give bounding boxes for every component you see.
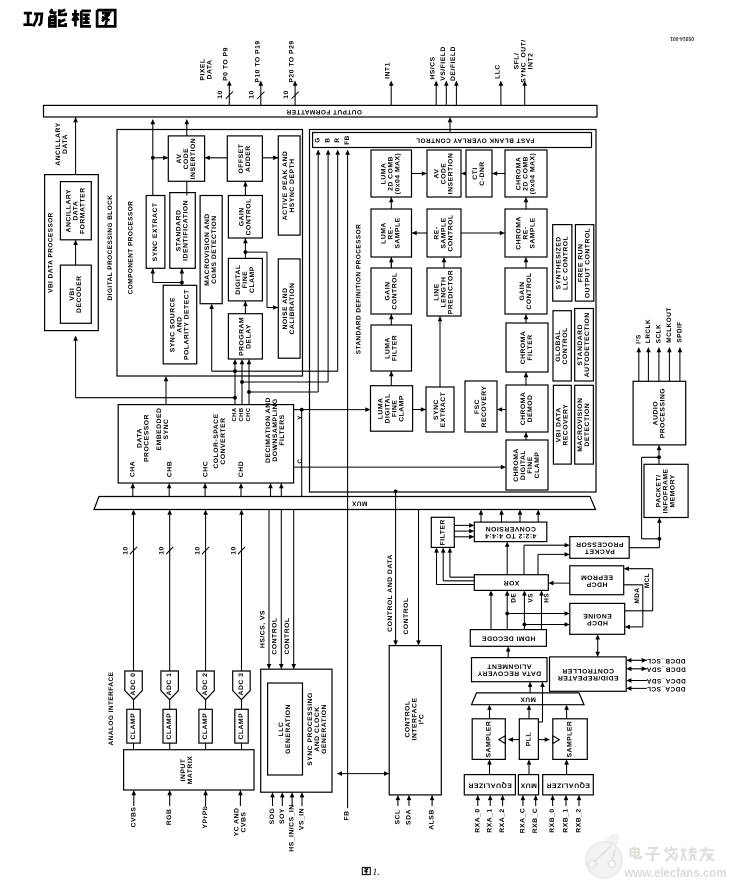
svg-text:RE-: RE- — [388, 226, 395, 239]
svg-text:STANDARD DEFINITION PROCESSOR: STANDARD DEFINITION PROCESSOR — [356, 224, 363, 354]
svg-text:GAIN: GAIN — [238, 207, 245, 226]
svg-text:LUMA: LUMA — [378, 398, 385, 420]
svg-text:YC AND: YC AND — [233, 808, 240, 837]
svg-text:RE-: RE- — [523, 226, 530, 239]
svg-text:SYNC PROCESSING: SYNC PROCESSING — [307, 692, 314, 766]
svg-text:CONTROL: CONTROL — [405, 700, 412, 737]
svg-text:SYNC: SYNC — [433, 399, 440, 420]
svg-text:ADC 2: ADC 2 — [202, 673, 209, 696]
svg-text:OUTPUT FORMATTER: OUTPUT FORMATTER — [286, 108, 362, 115]
svg-text:CONTROL: CONTROL — [526, 272, 533, 309]
svg-text:RECOVERY: RECOVERY — [562, 404, 569, 446]
svg-text:GAIN: GAIN — [519, 282, 526, 301]
svg-text:CONTROL: CONTROL — [448, 214, 455, 251]
svg-text:DE/FIELD: DE/FIELD — [450, 46, 457, 81]
svg-text:INFOFRAME: INFOFRAME — [663, 468, 670, 513]
svg-text:LLC: LLC — [494, 64, 501, 79]
svg-text:FINE: FINE — [242, 271, 249, 288]
svg-text:STANDARD: STANDARD — [176, 210, 183, 252]
svg-text:CVBS: CVBS — [240, 812, 247, 833]
svg-text:CODE: CODE — [183, 148, 190, 170]
svg-text:RE-: RE- — [434, 226, 441, 239]
svg-text:VBI DATA PROCESSOR: VBI DATA PROCESSOR — [47, 212, 54, 293]
svg-text:B: B — [325, 137, 332, 142]
svg-text:PREDICTOR: PREDICTOR — [448, 270, 455, 314]
svg-text:CODE: CODE — [441, 163, 448, 185]
svg-text:G: G — [315, 137, 322, 142]
svg-text:RXA_1: RXA_1 — [487, 808, 494, 832]
svg-text:NOISE AND: NOISE AND — [282, 287, 289, 329]
svg-text:FORMATTER: FORMATTER — [79, 187, 86, 234]
svg-text:10: 10 — [249, 90, 256, 99]
svg-text:CVBS: CVBS — [130, 807, 137, 828]
svg-text:POLARITY DETECT: POLARITY DETECT — [183, 289, 190, 360]
svg-text:CHD: CHD — [238, 461, 245, 477]
svg-text:CLAMP: CLAMP — [399, 395, 406, 422]
svg-text:SFL/: SFL/ — [514, 53, 521, 70]
svg-text:CLAMP: CLAMP — [130, 713, 137, 740]
svg-text:SCL: SCL — [394, 809, 401, 824]
svg-text:DELAY: DELAY — [245, 324, 252, 349]
svg-text:CHA: CHA — [232, 407, 238, 421]
svg-text:DATA: DATA — [206, 60, 213, 80]
svg-text:SCLK: SCLK — [655, 324, 662, 343]
svg-text:SAMPLER: SAMPLER — [485, 721, 492, 758]
svg-text:P0 TO P9: P0 TO P9 — [223, 47, 230, 81]
svg-text:CLAMP: CLAMP — [534, 452, 541, 479]
svg-text:VBI DATA: VBI DATA — [555, 407, 562, 442]
svg-text:EMBEDDED: EMBEDDED — [156, 408, 163, 451]
svg-text:AUTODETECTION: AUTODETECTION — [584, 312, 591, 377]
svg-text:RGB: RGB — [166, 809, 173, 826]
svg-text:CHROMA: CHROMA — [520, 392, 527, 426]
svg-text:PROCESSOR: PROCESSOR — [143, 414, 150, 462]
svg-text:SAMPLE: SAMPLE — [441, 217, 448, 248]
svg-text:STANDARD: STANDARD — [577, 324, 584, 366]
svg-text:10: 10 — [231, 546, 238, 555]
svg-text:DATA RECOVERY: DATA RECOVERY — [477, 670, 541, 677]
svg-text:INPUT: INPUT — [180, 758, 187, 781]
svg-text:VS_IN: VS_IN — [299, 808, 306, 830]
svg-text:COLOR-SPACE: COLOR-SPACE — [213, 413, 220, 468]
svg-text:SPDIF: SPDIF — [676, 321, 683, 342]
svg-text:DDCA_SCL: DDCA_SCL — [647, 685, 686, 692]
svg-text:05914-001: 05914-001 — [670, 35, 694, 41]
svg-text:RXB_2: RXB_2 — [576, 808, 583, 832]
svg-text:EQUALIZER: EQUALIZER — [468, 781, 512, 788]
svg-text:HS/CS, VS: HS/CS, VS — [259, 610, 266, 648]
svg-text:PROCESSOR: PROCESSOR — [576, 541, 624, 548]
svg-text:FREE RUN: FREE RUN — [578, 244, 585, 283]
svg-text:MUX: MUX — [520, 695, 536, 702]
svg-text:YPrPb: YPrPb — [202, 806, 209, 829]
svg-text:GLOBAL: GLOBAL — [555, 330, 562, 362]
svg-text:(0x04 MAX): (0x04 MAX) — [395, 153, 402, 195]
svg-text:MACROVISION AND: MACROVISION AND — [204, 213, 211, 286]
svg-text:www.elecfans.com: www.elecfans.com — [624, 865, 727, 880]
svg-text:ADC 1: ADC 1 — [166, 673, 173, 696]
svg-text:FAST BLANK OVERLAY CONTROL: FAST BLANK OVERLAY CONTROL — [416, 137, 535, 144]
svg-text:AND: AND — [176, 316, 183, 332]
svg-text:HS: HS — [544, 593, 551, 603]
svg-text:P10 TO P19: P10 TO P19 — [254, 40, 261, 82]
svg-text:FILTER: FILTER — [527, 334, 534, 360]
svg-text:DEMOD: DEMOD — [527, 395, 534, 423]
svg-text:ADC 0: ADC 0 — [130, 673, 137, 696]
svg-text:CLAMP: CLAMP — [249, 266, 256, 293]
svg-text:SYNC_OUT/: SYNC_OUT/ — [521, 39, 528, 82]
svg-text:LUMA: LUMA — [384, 337, 391, 359]
svg-text:SAMPLE: SAMPLE — [395, 217, 402, 248]
svg-text:CONTROL: CONTROL — [245, 198, 252, 235]
svg-text:RXB_0: RXB_0 — [549, 808, 556, 832]
svg-text:DDCB_SDA: DDCB_SDA — [646, 665, 686, 672]
svg-text:AND CLOCK: AND CLOCK — [314, 706, 321, 751]
svg-text:CLAMP: CLAMP — [166, 713, 173, 740]
svg-text:ACTIVE PEAK AND: ACTIVE PEAK AND — [282, 151, 289, 221]
svg-text:FB: FB — [344, 810, 351, 820]
svg-text:SOY: SOY — [279, 808, 286, 824]
svg-text:DATA: DATA — [136, 428, 143, 448]
svg-text:10: 10 — [283, 90, 290, 99]
svg-text:VBI: VBI — [69, 288, 76, 301]
svg-text:CHA: CHA — [130, 461, 137, 477]
svg-text:PIXEL: PIXEL — [199, 58, 206, 80]
svg-text:10: 10 — [159, 546, 166, 555]
svg-text:LINE: LINE — [434, 283, 441, 300]
svg-text:CHB: CHB — [239, 407, 245, 421]
svg-text:HS_IN/CS_IN: HS_IN/CS_IN — [289, 804, 296, 851]
svg-text:PROGRAM: PROGRAM — [238, 317, 245, 356]
svg-text:INSERTION: INSERTION — [448, 153, 455, 195]
svg-text:ENGINE: ENGINE — [583, 612, 612, 619]
svg-text:FILTER: FILTER — [391, 335, 398, 361]
svg-text:ANCILLARY: ANCILLARY — [65, 189, 72, 233]
svg-text:DDCA_SDA: DDCA_SDA — [646, 677, 686, 684]
svg-text:CONTROL: CONTROL — [562, 327, 569, 364]
svg-text:ADC 3: ADC 3 — [238, 673, 245, 696]
svg-text:CLAMP: CLAMP — [202, 713, 209, 740]
svg-text:INT2: INT2 — [528, 53, 535, 70]
svg-text:RXA_2: RXA_2 — [499, 808, 506, 832]
svg-text:CONTROL AND DATA: CONTROL AND DATA — [387, 554, 394, 632]
svg-text:MDA: MDA — [634, 587, 641, 603]
svg-text:FILTERS: FILTERS — [279, 414, 286, 445]
svg-text:CONTROL: CONTROL — [284, 617, 291, 654]
svg-text:GENERATION: GENERATION — [285, 704, 292, 754]
svg-text:HDCP: HDCP — [586, 580, 607, 587]
svg-text:SDA: SDA — [406, 809, 413, 825]
svg-text:DIGITAL: DIGITAL — [520, 450, 527, 480]
svg-text:DIGITAL: DIGITAL — [235, 265, 242, 295]
svg-text:RXB_1: RXB_1 — [563, 808, 570, 832]
svg-text:ALSB: ALSB — [429, 809, 436, 830]
svg-text:AV: AV — [434, 169, 441, 179]
svg-text:10: 10 — [195, 546, 202, 555]
svg-text:VS/FIELD: VS/FIELD — [440, 46, 447, 81]
svg-text:DECIMATION AND: DECIMATION AND — [265, 397, 272, 463]
svg-text:CHB: CHB — [167, 461, 174, 477]
svg-text:Y: Y — [297, 415, 304, 420]
svg-text:AV: AV — [176, 154, 183, 164]
svg-text:SYNTHESIZED: SYNTHESIZED — [555, 236, 562, 289]
svg-text:MUX: MUX — [351, 499, 367, 506]
svg-text:CGMS DETECTION: CGMS DETECTION — [211, 215, 218, 284]
svg-text:1.: 1. — [373, 868, 380, 878]
svg-text:CONTROL: CONTROL — [391, 272, 398, 309]
svg-text:INT1: INT1 — [385, 62, 392, 79]
svg-text:INTERFACE: INTERFACE — [412, 697, 419, 740]
svg-text:MCLKOUT: MCLKOUT — [666, 307, 673, 342]
svg-text:SYNC: SYNC — [163, 419, 170, 440]
svg-text:R: R — [334, 137, 341, 142]
svg-text:DOWNSAMPLING: DOWNSAMPLING — [272, 398, 279, 461]
svg-text:SOG: SOG — [269, 808, 276, 825]
svg-text:GENERATION: GENERATION — [321, 704, 328, 754]
svg-text:EQUALIZER: EQUALIZER — [546, 781, 590, 788]
svg-text:DECODER: DECODER — [76, 275, 83, 313]
svg-text:COMPONENT PROCESSOR: COMPONENT PROCESSOR — [128, 201, 135, 295]
svg-text:HS/CS: HS/CS — [430, 56, 437, 79]
svg-text:EEPROM: EEPROM — [581, 573, 613, 580]
svg-text:P20 TO P29: P20 TO P29 — [289, 40, 296, 82]
svg-text:RXA_C: RXA_C — [519, 808, 526, 834]
svg-text:SYNC SOURCE: SYNC SOURCE — [169, 297, 176, 352]
svg-text:LUMA: LUMA — [381, 163, 388, 185]
svg-text:MACROVISION: MACROVISION — [577, 398, 584, 452]
svg-text:HDCP: HDCP — [587, 619, 608, 626]
svg-text:RECOVERY: RECOVERY — [481, 386, 488, 428]
svg-text:CHROMA: CHROMA — [513, 448, 520, 482]
svg-text:C-DNR: C-DNR — [479, 161, 486, 185]
svg-text:CONTROLLER: CONTROLLER — [562, 667, 614, 674]
svg-text:DE: DE — [510, 593, 517, 603]
svg-text:SAMPLER: SAMPLER — [567, 721, 574, 758]
svg-text:MCL: MCL — [644, 573, 651, 588]
svg-text:MUX: MUX — [520, 781, 537, 788]
svg-text:CONTROL: CONTROL — [272, 617, 279, 654]
svg-text:OUTPUT CONTROL: OUTPUT CONTROL — [585, 228, 592, 298]
svg-text:CHROMA: CHROMA — [516, 216, 523, 250]
svg-text:PLL: PLL — [525, 732, 532, 746]
svg-text:PACKET/: PACKET/ — [656, 474, 663, 507]
svg-text:DDCB_SCL: DDCB_SCL — [647, 657, 686, 664]
svg-text:DETECTION: DETECTION — [584, 403, 591, 447]
svg-text:MATRIX: MATRIX — [187, 756, 194, 785]
svg-text:FILTER: FILTER — [439, 519, 446, 545]
svg-text:ANALOG INTERFACE: ANALOG INTERFACE — [108, 671, 115, 745]
svg-text:LENGTH: LENGTH — [441, 277, 448, 308]
svg-text:CHC: CHC — [246, 407, 252, 421]
svg-text:DIGITAL PROCESSING BLOCK: DIGITAL PROCESSING BLOCK — [107, 195, 114, 301]
svg-text:MEMORY: MEMORY — [670, 474, 677, 507]
svg-text:SYNC EXTRACT: SYNC EXTRACT — [152, 202, 159, 261]
svg-text:LUMA: LUMA — [381, 222, 388, 244]
svg-text:10: 10 — [123, 546, 130, 555]
svg-text:4:2:2 TO 4:4:4: 4:2:2 TO 4:4:4 — [485, 532, 537, 539]
svg-text:2D COMB: 2D COMB — [523, 156, 530, 191]
svg-text:CHROMA: CHROMA — [520, 331, 527, 365]
svg-text:IDENTIFICATION: IDENTIFICATION — [183, 200, 190, 261]
svg-text:XOR: XOR — [503, 579, 519, 586]
svg-text:CONVERTER: CONVERTER — [220, 417, 227, 464]
svg-text:FINE: FINE — [527, 456, 534, 473]
svg-text:SAMPLE: SAMPLE — [530, 217, 537, 248]
svg-text:AUDIO: AUDIO — [652, 401, 659, 425]
svg-text:PROCESSING: PROCESSING — [659, 388, 666, 438]
svg-text:ANCILLARY: ANCILLARY — [55, 122, 62, 166]
svg-text:CALIBRATION: CALIBRATION — [289, 283, 296, 335]
svg-text:2D COMB: 2D COMB — [388, 156, 395, 191]
svg-text:EXTRACT: EXTRACT — [440, 391, 447, 427]
svg-text:DIGITAL: DIGITAL — [385, 393, 392, 423]
svg-text:RXB_C: RXB_C — [532, 808, 539, 834]
svg-text:OFFSET: OFFSET — [238, 143, 245, 173]
svg-text:INSERTION: INSERTION — [190, 138, 197, 180]
svg-text:FB: FB — [344, 135, 351, 145]
svg-text:CONVERSION: CONVERSION — [485, 525, 536, 532]
svg-text:CLAMP: CLAMP — [238, 713, 245, 740]
svg-text:FINE: FINE — [392, 400, 399, 417]
svg-text:DATA: DATA — [62, 134, 69, 154]
svg-text:RXA_0: RXA_0 — [474, 808, 481, 832]
svg-text:I²S: I²S — [635, 334, 642, 344]
svg-text:FSC: FSC — [474, 399, 481, 414]
svg-text:LLC: LLC — [278, 722, 285, 737]
svg-text:CHROMA: CHROMA — [516, 157, 523, 191]
svg-text:HDMI DECODE: HDMI DECODE — [481, 635, 535, 642]
svg-text:CONTROL: CONTROL — [403, 597, 410, 634]
svg-text:ADDER: ADDER — [245, 145, 252, 172]
svg-text:VS: VS — [528, 593, 535, 603]
svg-text:C: C — [297, 458, 304, 463]
svg-text:10: 10 — [217, 90, 224, 99]
svg-text:PACKET: PACKET — [584, 548, 615, 555]
svg-text:CHC: CHC — [203, 461, 210, 477]
svg-text:GAIN: GAIN — [384, 282, 391, 301]
svg-text:ALIGNMENT: ALIGNMENT — [486, 663, 531, 670]
svg-text:LLC CONTROL: LLC CONTROL — [562, 236, 569, 290]
svg-text:LRCLK: LRCLK — [645, 319, 652, 343]
svg-text:CTI: CTI — [472, 167, 479, 179]
svg-text:HSYNC DEPTH: HSYNC DEPTH — [289, 158, 296, 212]
svg-text:EDID/REPEATER: EDID/REPEATER — [557, 674, 618, 681]
svg-text:DATA: DATA — [72, 201, 79, 221]
svg-text:(0x04 MAX): (0x04 MAX) — [530, 153, 537, 195]
svg-text:I²C: I²C — [419, 714, 426, 725]
